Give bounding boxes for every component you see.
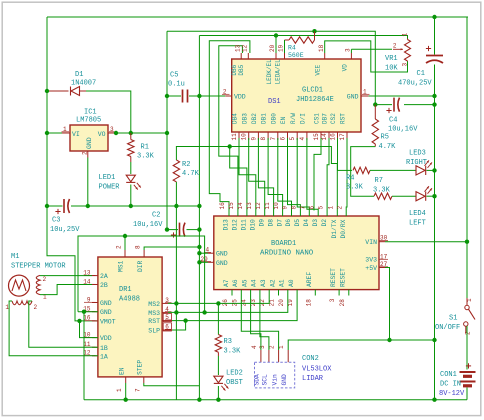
svg-text:D4: D4 [303, 219, 310, 227]
node rail199 bottom junction [197, 398, 201, 402]
pin VI of IC1 [62, 132, 70, 134]
pin A1 of BOARD1 [287, 290, 289, 296]
diode D1 [49, 90, 69, 92]
svg-text:R2: R2 [182, 161, 190, 169]
wire RSTSLP to A0 [186, 296, 298, 321]
pin D5 of BOARD1 [299, 211, 301, 217]
svg-text:SLP: SLP [148, 328, 160, 335]
pin GND4 of BOARD1 [208, 252, 214, 254]
resistor R4 560E [289, 37, 315, 43]
pin D13 of BOARD1 [228, 211, 230, 217]
wire C4 right [404, 104, 435, 106]
wire rail x434 upper [434, 17, 436, 55]
wire Vin route [241, 296, 278, 351]
capacitor C4 [393, 98, 395, 112]
pin D4 of BOARD1 [308, 211, 310, 217]
svg-text:DB7: DB7 [322, 113, 329, 124]
pin LEDK/EL of GLCD1 [275, 53, 277, 59]
svg-text:GND: GND [100, 309, 112, 316]
svg-text:GND: GND [281, 374, 288, 386]
svg-text:RIGHT: RIGHT [406, 159, 427, 167]
svg-text:26: 26 [222, 299, 229, 307]
svg-text:JHD12864E: JHD12864E [296, 96, 334, 104]
svg-text:D11: D11 [241, 219, 248, 231]
pin GND of IC1 [87, 151, 89, 158]
pin MS3 of DR1 [162, 311, 168, 313]
wire STEP route [144, 383, 200, 386]
ic DR1 box [98, 257, 162, 377]
svg-text:DB0: DB0 [270, 113, 277, 124]
node DIR junction [197, 245, 201, 249]
svg-text:4.7K: 4.7K [182, 170, 200, 178]
wire pin19 riser [284, 40, 286, 53]
wire SCL route [260, 296, 269, 351]
node VIN junction [465, 240, 469, 244]
svg-text:VL53LOX: VL53LOX [302, 366, 332, 374]
pin GND of GLCD1 [361, 95, 369, 97]
wire data bus 6 [297, 138, 309, 211]
pin D7 of BOARD1 [282, 211, 284, 217]
svg-text:LED2: LED2 [226, 370, 243, 378]
pin VD of GLCD1 [350, 53, 352, 59]
pin EN of DR1 [125, 377, 127, 383]
wire C5 left [167, 95, 181, 97]
svg-text:RST: RST [148, 318, 160, 325]
svg-text:VMOT: VMOT [100, 318, 116, 325]
svg-text:C4: C4 [389, 117, 397, 125]
wire CON1 to rail [466, 388, 468, 400]
svg-text:AREF: AREF [306, 272, 313, 287]
svg-text:RST: RST [340, 113, 347, 124]
pin DB7 of GLCD1 [328, 132, 330, 140]
wire MS1 riser [124, 236, 126, 250]
wire CS2 route [337, 138, 339, 170]
pin 2B of DR1 [92, 284, 98, 286]
potentiometer VR1 [407, 39, 409, 40]
svg-text:D0/RX: D0/RX [340, 219, 347, 238]
svg-text:CS2: CS2 [330, 113, 337, 124]
svg-text:STEP: STEP [137, 360, 144, 375]
svg-text:CON2: CON2 [302, 355, 319, 363]
svg-text:0.1u: 0.1u [168, 81, 185, 89]
svg-text:1A: 1A [100, 353, 108, 360]
svg-text:D12: D12 [232, 219, 239, 231]
svg-text:R5: R5 [381, 134, 389, 142]
svg-text:8: 8 [260, 137, 267, 141]
svg-text:VDD: VDD [100, 335, 112, 342]
svg-text:EN: EN [280, 116, 287, 124]
pin DIR of DR1 [143, 250, 145, 257]
ic GLCD1 box [232, 59, 361, 132]
svg-text:25: 25 [231, 299, 238, 307]
wire top rail +12V [47, 16, 468, 18]
svg-text:3: 3 [401, 63, 408, 67]
wire S1 to CON1 [466, 326, 468, 370]
wire 1B route [29, 301, 98, 347]
svg-text:6: 6 [280, 137, 287, 141]
svg-text:1: 1 [466, 298, 473, 302]
svg-text:4.7K: 4.7K [379, 143, 397, 151]
node LED1 GND junction [129, 204, 133, 208]
wire LED2 to rail [217, 386, 219, 400]
pin D1/TX of BOARD1 [336, 211, 338, 217]
battery CON1 [466, 365, 471, 367]
pin A6 of BOARD1 [240, 290, 242, 296]
svg-text:VDD: VDD [234, 94, 246, 101]
pin GND of DR1 [92, 311, 98, 313]
node GND-5V junction [387, 338, 391, 342]
pin Vin of CON2 [278, 350, 280, 362]
svg-text:STEPPER MOTOR: STEPPER MOTOR [11, 263, 66, 271]
wire LED4 to rail [427, 195, 435, 197]
pin D0/RX of BOARD1 [345, 211, 347, 217]
svg-text:LEDA/EL: LEDA/EL [274, 59, 281, 85]
led LED4 [416, 192, 425, 201]
svg-text:1: 1 [116, 388, 123, 392]
node left-VI junction [45, 131, 49, 135]
inductor coil L2 [12, 301, 32, 305]
node RSTSLP junction [183, 318, 187, 322]
pin A7 of BOARD1 [231, 290, 233, 296]
node C4 left junction [373, 102, 377, 106]
svg-text:10K: 10K [385, 65, 398, 73]
wire rail x199 [198, 36, 200, 400]
pin R/W of GLCD1 [296, 132, 298, 140]
pin D9 of BOARD1 [264, 211, 266, 217]
svg-text:8: 8 [135, 245, 142, 249]
connector CON2 box [255, 362, 295, 388]
svg-text:A2: A2 [269, 279, 276, 287]
resistor R5 [374, 105, 376, 119]
wire rail x434 lower [434, 65, 436, 400]
svg-text:10u,16V: 10u,16V [388, 126, 418, 134]
wire data bus 3 [268, 138, 283, 211]
capacitor C1 [426, 55, 443, 57]
svg-text:LIDAR: LIDAR [302, 375, 324, 383]
led LED1 [126, 175, 135, 182]
pin D10 of BOARD1 [255, 211, 257, 217]
pin GND of CON2 [287, 350, 289, 362]
svg-text:D9: D9 [258, 219, 265, 227]
wire bottom rail [84, 399, 467, 401]
wire 1A route [9, 301, 98, 356]
svg-text:D8: D8 [267, 219, 274, 227]
wire 2A row [40, 275, 92, 277]
svg-text:R3: R3 [224, 338, 232, 346]
wire LED1 to GND row [130, 185, 132, 207]
svg-text:A0: A0 [288, 279, 295, 287]
resistor R7 [374, 193, 392, 199]
svg-text:DS1: DS1 [268, 98, 281, 106]
pin SLP of DR1 [162, 329, 172, 331]
svg-text:S1: S1 [449, 315, 457, 323]
svg-text:9: 9 [250, 137, 257, 141]
svg-text:BOARD1: BOARD1 [271, 240, 296, 248]
svg-text:C3: C3 [52, 217, 60, 225]
node top rail junction [432, 15, 436, 19]
led LED3 [416, 166, 425, 175]
svg-text:10: 10 [273, 202, 280, 210]
pin 2A of DR1 [92, 275, 98, 277]
wire data bus 0 [239, 138, 256, 211]
wire VDD row [199, 95, 225, 97]
inductor coil L1 [36, 275, 40, 294]
pin DB2 of GLCD1 [257, 132, 259, 140]
svg-text:DB3: DB3 [241, 113, 248, 124]
pin CS1 of GLCD1 [320, 132, 322, 140]
svg-text:2: 2 [116, 245, 123, 249]
wire GLCD GND to rail [369, 95, 435, 97]
pin DB0 of GLCD1 [277, 132, 279, 140]
node VO-R1 junction [129, 131, 133, 135]
wire DB5 route [209, 41, 250, 211]
wire C4 left [375, 104, 392, 106]
svg-text:DB4: DB4 [232, 113, 239, 124]
wire R1 to LED1 [130, 162, 132, 174]
svg-text:18: 18 [318, 44, 325, 52]
wire pin3VD riser [350, 49, 352, 53]
svg-text:3.3K: 3.3K [137, 153, 155, 161]
pin RST of DR1 [162, 320, 172, 322]
pin RESET of BOARD1 [338, 290, 340, 296]
svg-text:A5: A5 [241, 279, 248, 287]
svg-text:17: 17 [339, 133, 346, 141]
wire LED3 to rail [427, 169, 435, 171]
svg-text:DB5: DB5 [238, 64, 245, 75]
capacitor C5 [182, 90, 184, 103]
node LED2 junction [216, 398, 220, 402]
svg-text:Vin: Vin [271, 374, 278, 386]
ic IC1 box [70, 125, 108, 151]
svg-text:GND: GND [216, 260, 228, 267]
pin VDD of DR1 [92, 337, 98, 339]
node GND4 junction [197, 251, 201, 255]
wire GND4 [199, 252, 208, 254]
capacitor C3 [63, 199, 65, 213]
node C5 left junction [165, 94, 169, 98]
svg-text:2: 2 [393, 43, 397, 50]
node R2 GND junction [174, 204, 178, 208]
node C2 right junction [197, 227, 201, 231]
svg-text:A7: A7 [223, 279, 230, 287]
svg-text:3.3K: 3.3K [224, 348, 242, 356]
node pin20 junction [274, 33, 278, 37]
node D11 branch junction [228, 144, 232, 148]
svg-text:GLCD1: GLCD1 [302, 87, 323, 95]
resistor R3 [217, 303, 219, 334]
svg-text:RESET: RESET [340, 268, 347, 287]
wire DB7 route [327, 138, 329, 211]
wire R2 top line [176, 147, 337, 211]
wire data bus 5 [288, 138, 301, 211]
switch S1 [466, 298, 468, 305]
svg-text:2A: 2A [100, 273, 108, 280]
svg-text:DC IN: DC IN [440, 381, 461, 389]
wire RST-SLP jumper [172, 321, 186, 330]
wire VIN row [385, 241, 467, 243]
svg-text:MS2: MS2 [148, 301, 160, 308]
svg-text:1: 1 [401, 33, 408, 37]
pin DB6 of GLCD1 [240, 53, 242, 59]
wire R3 to LED2 [217, 356, 219, 375]
node MS2 junction [174, 301, 178, 305]
svg-text:7: 7 [300, 206, 307, 210]
svg-text:+5V: +5V [365, 265, 377, 272]
svg-text:3: 3 [259, 345, 266, 349]
svg-text:C5: C5 [170, 72, 178, 80]
svg-text:ON/OFF: ON/OFF [435, 324, 460, 332]
pin +5V of BOARD1 [379, 267, 385, 269]
svg-text:A3: A3 [260, 279, 267, 287]
svg-text:A1: A1 [279, 279, 286, 287]
svg-text:16: 16 [330, 133, 337, 141]
svg-text:11: 11 [264, 202, 271, 210]
wire VEE line [325, 41, 408, 72]
pin A0 of BOARD1 [296, 290, 298, 296]
wire MS1 ground line [78, 236, 205, 312]
node GND15 junction [82, 310, 86, 314]
wire GND row left [47, 205, 63, 207]
svg-text:2: 2 [34, 304, 38, 311]
svg-text:9: 9 [282, 206, 289, 210]
wire MS2 row [168, 296, 269, 304]
node LED4 junction [432, 194, 436, 198]
pin VO of IC1 [108, 132, 116, 134]
svg-text:1B: 1B [100, 345, 108, 352]
wire C2 right [187, 229, 200, 231]
pin DB5 of GLCD1 [247, 53, 249, 59]
pin EN of GLCD1 [287, 132, 289, 140]
svg-text:DB6: DB6 [231, 64, 238, 75]
svg-text:MS1: MS1 [118, 260, 125, 272]
wire R4b to LED3 [370, 169, 416, 171]
svg-text:GND: GND [100, 300, 112, 307]
wire R2 bottom [175, 182, 177, 206]
pin STEP of DR1 [143, 377, 145, 383]
svg-text:RESET: RESET [330, 268, 337, 287]
svg-text:D1/TX: D1/TX [331, 219, 338, 238]
svg-text:5: 5 [317, 206, 324, 210]
svg-text:R4: R4 [346, 175, 354, 183]
node +5V junction [432, 338, 436, 342]
wire DB6 route [219, 46, 243, 211]
wire rail x467 top [466, 17, 468, 303]
wire GND route [288, 340, 434, 350]
pin D12 of BOARD1 [237, 211, 239, 217]
svg-text:D5: D5 [294, 219, 301, 227]
node left-D1 junction [45, 89, 49, 93]
pin DB3 of GLCD1 [248, 132, 250, 140]
svg-text:IC1: IC1 [84, 109, 97, 117]
wire +5V rail x167 [166, 31, 168, 229]
svg-text:6: 6 [308, 206, 315, 210]
svg-text:12: 12 [242, 44, 249, 52]
node VO-rail junction [165, 131, 169, 135]
node C5 right junction [197, 94, 201, 98]
pin RESET of BOARD1 [348, 290, 350, 296]
svg-text:C1: C1 [417, 70, 425, 78]
svg-text:POWER: POWER [99, 184, 121, 192]
wire CS1 to R4b [338, 169, 353, 171]
svg-text:OBST: OBST [226, 379, 243, 387]
wire D11 branch [230, 147, 247, 211]
svg-text:10u,16V: 10u,16V [133, 221, 163, 229]
svg-text:1: 1 [328, 206, 335, 210]
wire IC1 GND down [87, 158, 89, 207]
svg-text:MS3: MS3 [148, 310, 160, 317]
svg-text:14: 14 [321, 133, 328, 141]
svg-text:10: 10 [241, 133, 248, 141]
svg-text:D10: D10 [250, 219, 257, 231]
wire VDD branch [80, 321, 98, 338]
svg-text:VR1: VR1 [385, 55, 398, 63]
node VO-pin junction [114, 131, 118, 135]
node rail434 bottom junction [432, 398, 436, 402]
svg-text:560E: 560E [288, 52, 304, 59]
svg-text:VEE: VEE [315, 64, 322, 75]
svg-text:GND: GND [86, 137, 93, 149]
svg-text:LEFT: LEFT [409, 220, 426, 228]
node MS2-R3 junction [216, 301, 220, 305]
wire MS3 row [168, 296, 288, 313]
svg-text:13: 13 [234, 44, 241, 52]
pin MS2 of DR1 [162, 302, 168, 304]
svg-text:8V-12V: 8V-12V [439, 390, 465, 398]
wire RST route [345, 138, 348, 211]
pin VEE of GLCD1 [324, 53, 326, 59]
svg-text:A4: A4 [251, 279, 258, 287]
svg-text:SCL: SCL [262, 374, 269, 386]
pin AREF of BOARD1 [314, 290, 316, 296]
wire data bus 4 [278, 138, 292, 211]
pin D3 of BOARD1 [317, 211, 319, 217]
wire DIR route [144, 247, 199, 250]
node MS3 junction [174, 310, 178, 314]
pin A5 of BOARD1 [250, 290, 252, 296]
node MS1 junction [123, 234, 127, 238]
wire GND15 row [78, 311, 98, 313]
wire backlight line [199, 36, 407, 40]
wire +5V route [385, 268, 390, 341]
resistor R1 [130, 133, 132, 140]
ic BOARD1 box [214, 216, 379, 290]
pin DB1 of GLCD1 [267, 132, 269, 140]
svg-text:13: 13 [246, 202, 253, 210]
svg-text:R4: R4 [288, 45, 296, 52]
wire GND15 to rail [83, 312, 85, 400]
wire wiper line [351, 48, 392, 50]
svg-text:A6: A6 [232, 279, 239, 287]
svg-text:D13: D13 [223, 219, 230, 231]
node R4-right junction [312, 29, 316, 33]
pin RST of GLCD1 [346, 132, 348, 140]
wire R5 to R7 [351, 147, 376, 197]
wire 2B row [40, 285, 92, 295]
node C4 right junction [432, 102, 436, 106]
pin D11 of BOARD1 [246, 211, 248, 217]
svg-text:LEDK/EL: LEDK/EL [266, 59, 273, 85]
svg-text:GND: GND [347, 94, 359, 101]
svg-text:LED3: LED3 [409, 150, 426, 158]
svg-text:D7: D7 [276, 219, 283, 227]
motor M1 circle [9, 275, 30, 296]
svg-text:3: 3 [345, 48, 352, 52]
node rail200 GND junction [197, 204, 201, 208]
svg-text:VIN: VIN [365, 239, 377, 246]
svg-text:A4988: A4988 [119, 296, 140, 304]
svg-text:16: 16 [219, 202, 226, 210]
svg-text:3.3K: 3.3K [346, 184, 364, 192]
